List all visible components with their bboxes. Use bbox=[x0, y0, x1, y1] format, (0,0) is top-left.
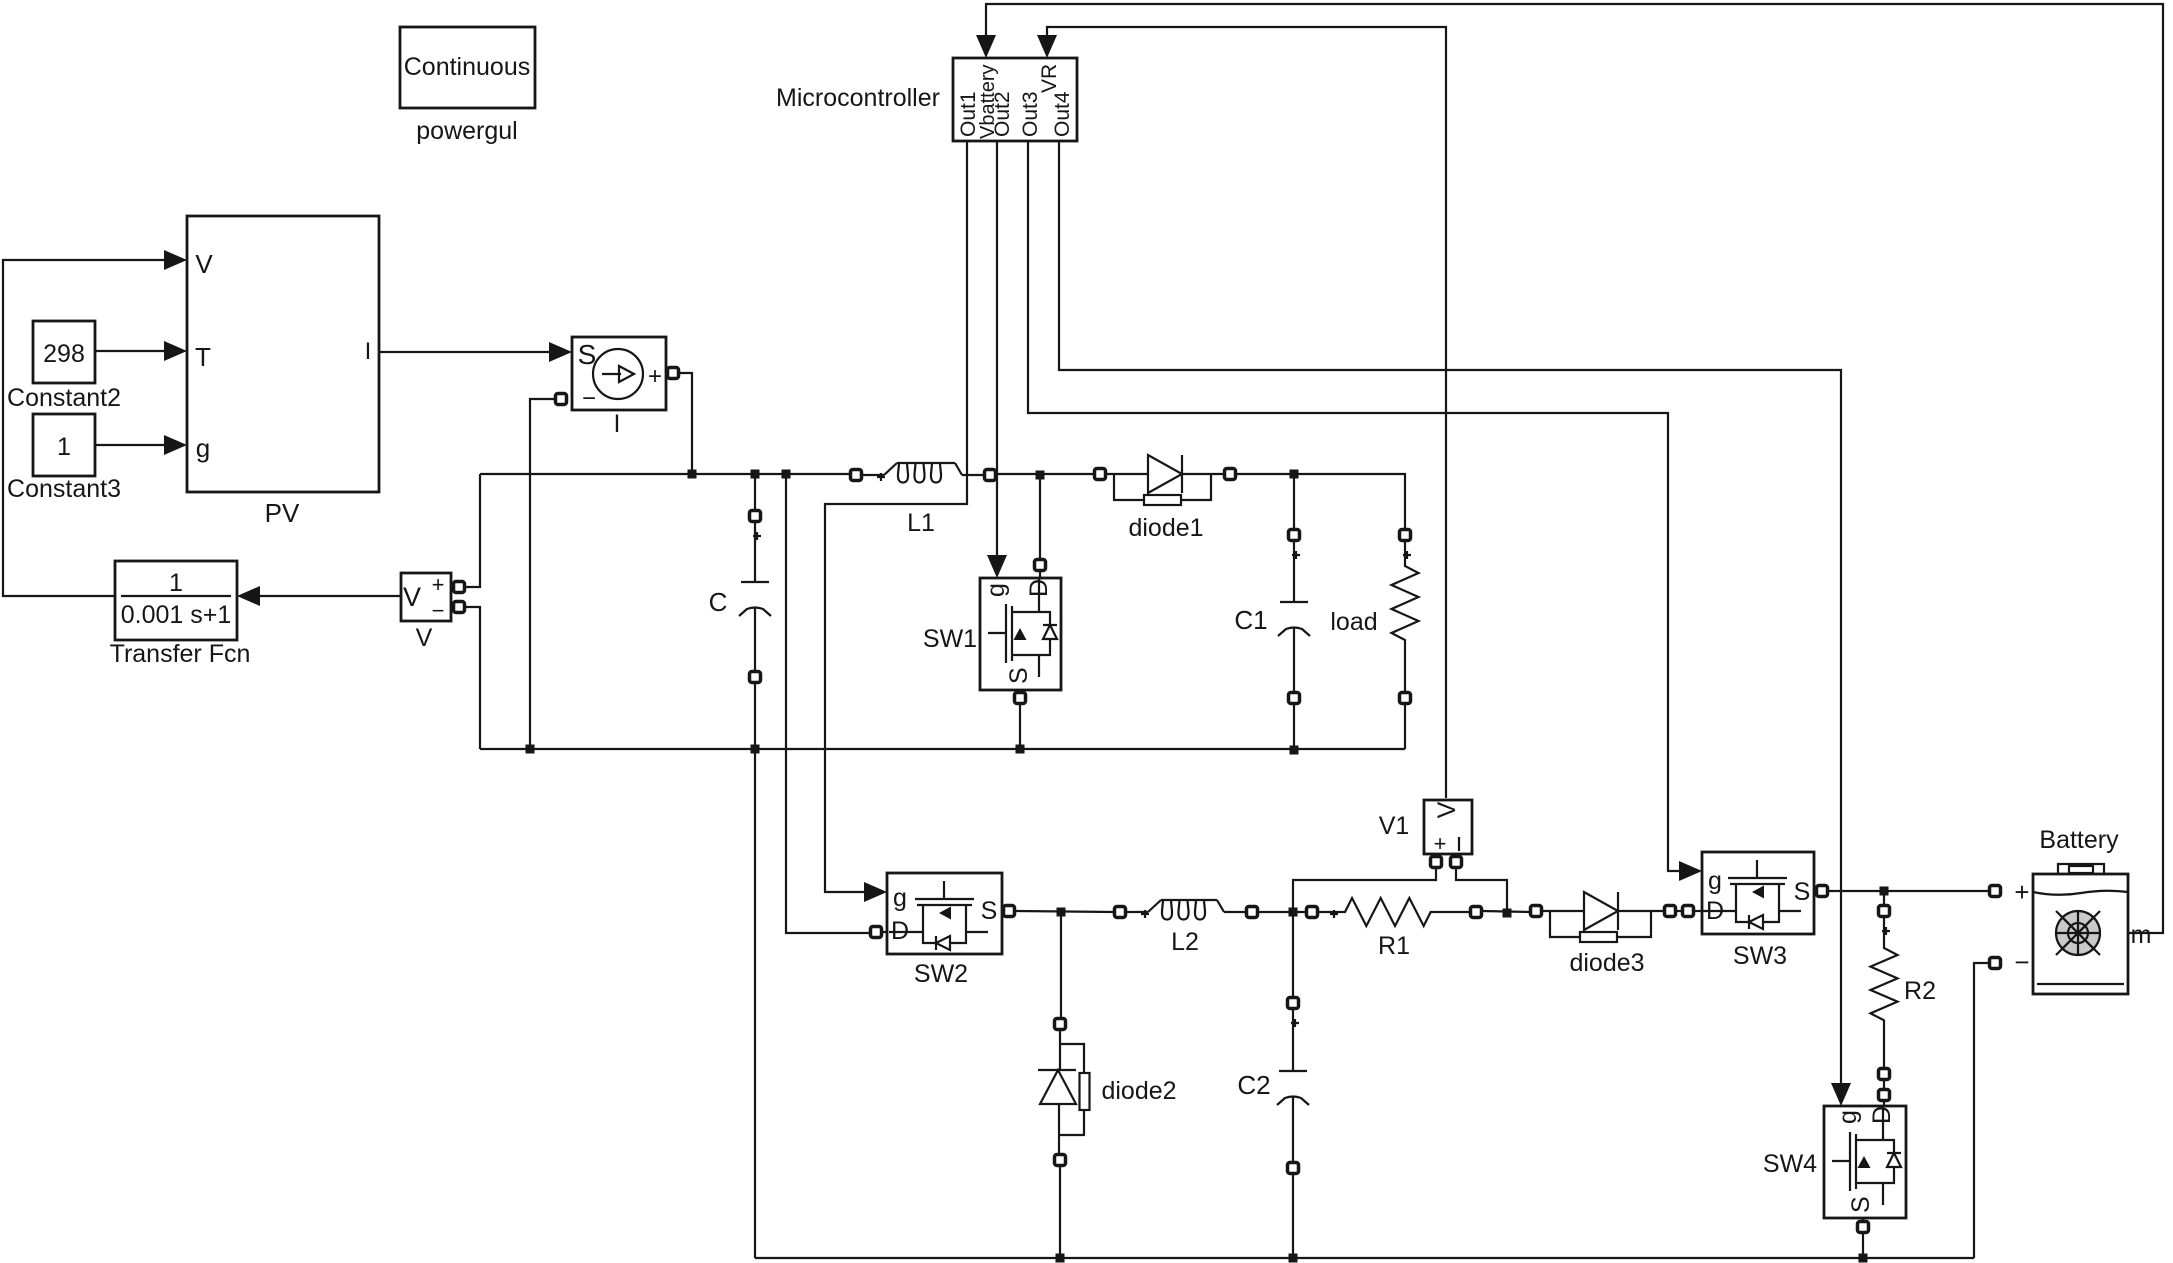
wire C2 bottom to rail bbox=[1292, 1174, 1294, 1258]
wire C2 branch down bbox=[1292, 912, 1294, 997]
wire V1 output to VR input bbox=[1047, 27, 1446, 798]
svg-text:S: S bbox=[981, 897, 998, 925]
svg-text:D: D bbox=[1868, 1106, 1896, 1124]
wire battery m to Vbattery input bbox=[986, 4, 2163, 933]
wire bottom rail bbox=[755, 1257, 1974, 1259]
svg-text:Out3: Out3 bbox=[1019, 91, 1042, 137]
wire SW3 source to battery plus bbox=[1828, 890, 1989, 892]
svg-text:R1: R1 bbox=[1378, 932, 1410, 960]
controlled current source block bbox=[572, 337, 666, 410]
svg-text:g: g bbox=[982, 583, 1010, 597]
SW4 source port bbox=[1858, 1222, 1869, 1233]
capacitor C1 bbox=[1289, 530, 1300, 541]
wire Constant2 to PV T bbox=[95, 350, 166, 352]
wire capacitor C bottom to bottom bus and down to lower rail bbox=[754, 683, 756, 1258]
svg-text:diode2: diode2 bbox=[1101, 1077, 1176, 1105]
svg-text:S: S bbox=[1794, 878, 1811, 906]
wire diode3 to SW3 drain bbox=[1676, 910, 1682, 912]
current source port minus bbox=[556, 394, 567, 405]
svg-text:C: C bbox=[709, 587, 728, 617]
SW2 source port bbox=[1004, 906, 1015, 917]
svg-text:−: − bbox=[582, 385, 596, 412]
V1 port minus bbox=[1451, 857, 1462, 868]
constant C3 block value 1 bbox=[33, 414, 95, 476]
resistor load bbox=[1400, 530, 1411, 541]
wire C1 bottom to bus bbox=[1293, 703, 1295, 751]
svg-text:SW3: SW3 bbox=[1733, 942, 1787, 970]
wire R1 to diode3 bbox=[1482, 911, 1530, 912]
svg-text:V1: V1 bbox=[1379, 812, 1410, 840]
svg-text:+: + bbox=[648, 363, 662, 390]
microcontroller block bbox=[953, 58, 1077, 141]
current source port plus bbox=[668, 368, 679, 379]
resistor R2 bbox=[1879, 906, 1890, 917]
svg-text:I: I bbox=[614, 410, 621, 438]
wire feedback Transfer Fcn to PV V bbox=[3, 260, 166, 596]
svg-text:PV: PV bbox=[265, 498, 300, 528]
svg-text:g: g bbox=[893, 884, 907, 912]
wire Out4 to SW4 gate bbox=[1059, 141, 1841, 1085]
battery recycle logo bbox=[2056, 911, 2100, 955]
junction current source minus on bottom bus bbox=[526, 745, 535, 754]
svg-text:Constant3: Constant3 bbox=[7, 475, 121, 503]
mosfet SW3 block bbox=[1702, 852, 1814, 934]
svg-text:1: 1 bbox=[169, 569, 183, 597]
junction diode2 branch bbox=[1057, 908, 1066, 917]
svg-text:VR: VR bbox=[1038, 64, 1061, 93]
svg-text:+: + bbox=[432, 572, 445, 597]
svg-text:C1: C1 bbox=[1234, 605, 1267, 635]
constant C2 block value 298 bbox=[33, 321, 95, 383]
junction V1 minus on wire bbox=[1503, 909, 1512, 918]
wire SW2 source to L2 bbox=[1015, 911, 1114, 912]
wire R2 to SW4 drain bbox=[1883, 1080, 1885, 1089]
svg-text:V: V bbox=[195, 249, 213, 279]
svg-text:R2: R2 bbox=[1904, 977, 1936, 1005]
svg-text:0.001 s+1: 0.001 s+1 bbox=[121, 601, 232, 629]
junction capacitor C on top bus bbox=[751, 470, 760, 479]
diode1 bbox=[1095, 469, 1106, 480]
wire V plus to top bus bbox=[465, 474, 480, 587]
wire current source minus down to bottom bus bbox=[530, 399, 555, 749]
wire SW2 drain branch down bbox=[786, 474, 870, 933]
junction diode2 on bottom rail bbox=[1056, 1254, 1065, 1263]
SW1 drain port bbox=[1035, 560, 1046, 571]
junction current source plus on top bus bbox=[688, 470, 697, 479]
SW3 source port bbox=[1817, 886, 1828, 897]
SW3 drain port bbox=[1683, 906, 1694, 917]
svg-text:Battery: Battery bbox=[2039, 826, 2119, 854]
svg-text:I: I bbox=[365, 338, 372, 365]
mosfet SW4 block bbox=[1824, 1106, 1906, 1218]
junction C2 on bottom rail bbox=[1289, 1254, 1298, 1263]
wire V1 minus to R1 right node bbox=[1456, 868, 1507, 913]
svg-text:g: g bbox=[1708, 867, 1722, 895]
svg-text:D: D bbox=[1025, 579, 1053, 597]
capacitor C2 bbox=[1288, 998, 1299, 1009]
svg-text:Microcontroller: Microcontroller bbox=[776, 84, 940, 112]
junction C1 bottom on bottom bus bbox=[1290, 746, 1299, 755]
wire V measurement to Transfer Fcn input bbox=[260, 595, 401, 597]
wire Out3 to SW3 gate bbox=[1028, 141, 1681, 871]
wire battery minus to bottom rail bbox=[1974, 963, 1989, 1258]
SW1 source port bbox=[1015, 693, 1026, 704]
wire diode1 to load rail bbox=[1236, 474, 1405, 529]
svg-text:Transfer Fcn: Transfer Fcn bbox=[110, 640, 251, 668]
junction V1 plus and C2 branch bbox=[1289, 908, 1298, 917]
SW2 drain port bbox=[871, 927, 882, 938]
diode2 vertical bbox=[1055, 1019, 1066, 1030]
junction SW1 drain on top bus bbox=[1036, 471, 1045, 480]
svg-text:1: 1 bbox=[57, 433, 71, 461]
svg-text:m: m bbox=[2131, 921, 2152, 949]
svg-text:C2: C2 bbox=[1237, 1070, 1270, 1100]
svg-text:D: D bbox=[1706, 897, 1724, 925]
wire capacitor C branch from top bus bbox=[754, 474, 756, 511]
wire SW4 source to bottom rail bbox=[1862, 1233, 1864, 1258]
svg-text:SW2: SW2 bbox=[914, 960, 968, 988]
inductor L1 bbox=[851, 470, 862, 481]
svg-text:Out4: Out4 bbox=[1051, 91, 1074, 137]
svg-text:+: + bbox=[2014, 877, 2029, 907]
svg-text:V: V bbox=[1433, 801, 1461, 818]
battery block bbox=[2033, 874, 2128, 994]
V block port minus bbox=[454, 602, 465, 613]
inductor L2 bbox=[1115, 907, 1126, 918]
wire bottom bus bbox=[480, 748, 1405, 750]
wire top bus PV output rail bbox=[480, 473, 851, 475]
wire L1 to diode1 bbox=[996, 473, 1094, 475]
wire Constant3 to PV g bbox=[95, 444, 166, 446]
wire V1 plus to R1 left node bbox=[1293, 868, 1436, 912]
svg-text:g: g bbox=[1834, 1110, 1862, 1124]
svg-text:V: V bbox=[416, 624, 433, 652]
wire PV I to current source bbox=[379, 351, 550, 353]
mosfet SW2 block bbox=[887, 873, 1002, 954]
svg-text:+: + bbox=[1434, 831, 1447, 856]
svg-text:Out2: Out2 bbox=[991, 91, 1014, 137]
svg-text:S: S bbox=[1847, 1196, 1875, 1213]
svg-text:V: V bbox=[403, 582, 421, 612]
voltage measurement block V1 bbox=[1424, 800, 1472, 854]
wire current source plus down to top bus bbox=[679, 373, 692, 474]
mosfet SW1 block bbox=[980, 578, 1061, 690]
wire V minus to bottom bus bbox=[465, 607, 480, 749]
powergui block bbox=[400, 27, 535, 108]
svg-text:Continuous: Continuous bbox=[404, 53, 530, 81]
svg-text:−: − bbox=[2014, 947, 2029, 977]
V block port plus bbox=[454, 582, 465, 593]
svg-text:−: − bbox=[432, 598, 445, 623]
wire SW1 drain from top bus bbox=[1039, 475, 1041, 560]
voltage measurement block V bbox=[401, 573, 451, 621]
svg-text:SW4: SW4 bbox=[1763, 1150, 1817, 1178]
wire R2 branch bbox=[1883, 891, 1885, 906]
svg-text:SW1: SW1 bbox=[923, 625, 977, 653]
svg-text:T: T bbox=[195, 342, 211, 372]
current source S input arrow bbox=[549, 342, 572, 362]
svg-text:g: g bbox=[196, 433, 210, 463]
svg-text:diode1: diode1 bbox=[1128, 514, 1203, 542]
junction SW4 source on bottom rail bbox=[1859, 1254, 1868, 1263]
junction SW1 source on bottom bus bbox=[1016, 745, 1025, 754]
svg-text:Constant2: Constant2 bbox=[7, 384, 121, 412]
SW4 drain port bbox=[1879, 1090, 1890, 1101]
wire Out2 to SW1 gate bbox=[996, 141, 998, 557]
junction C1 on top rail bbox=[1290, 470, 1299, 479]
PV block bbox=[187, 216, 379, 492]
svg-text:load: load bbox=[1330, 608, 1377, 636]
wire diode2 branch down bbox=[1060, 912, 1062, 1018]
capacitor C bbox=[750, 511, 761, 522]
transfer function block bbox=[115, 561, 237, 640]
svg-text:diode3: diode3 bbox=[1569, 949, 1644, 977]
wire C1 branch bbox=[1293, 474, 1295, 530]
battery port plus bbox=[1990, 886, 2001, 897]
wire L2 to R1 bbox=[1258, 911, 1306, 913]
svg-text:L2: L2 bbox=[1171, 928, 1199, 956]
V1 port plus bbox=[1431, 857, 1442, 868]
wire diode2 bottom to rail bbox=[1059, 1166, 1061, 1258]
svg-text:L1: L1 bbox=[907, 509, 935, 537]
battery port minus bbox=[1990, 958, 2001, 969]
junction R2 branch bbox=[1880, 887, 1889, 896]
resistor R1 bbox=[1307, 907, 1318, 918]
svg-text:S: S bbox=[1005, 667, 1033, 684]
wire SW1 source to bottom bus bbox=[1019, 704, 1021, 749]
svg-text:D: D bbox=[891, 917, 909, 945]
svg-text:powergul: powergul bbox=[416, 117, 517, 145]
wire Out1 to SW2 gate bbox=[825, 141, 967, 892]
junction capacitor branch on bottom bus bbox=[751, 745, 760, 754]
wire load bottom to bus bbox=[1404, 703, 1406, 749]
junction SW2 drain branch on top bus bbox=[782, 470, 791, 479]
diode3 bbox=[1531, 906, 1542, 917]
svg-text:298: 298 bbox=[43, 340, 85, 368]
